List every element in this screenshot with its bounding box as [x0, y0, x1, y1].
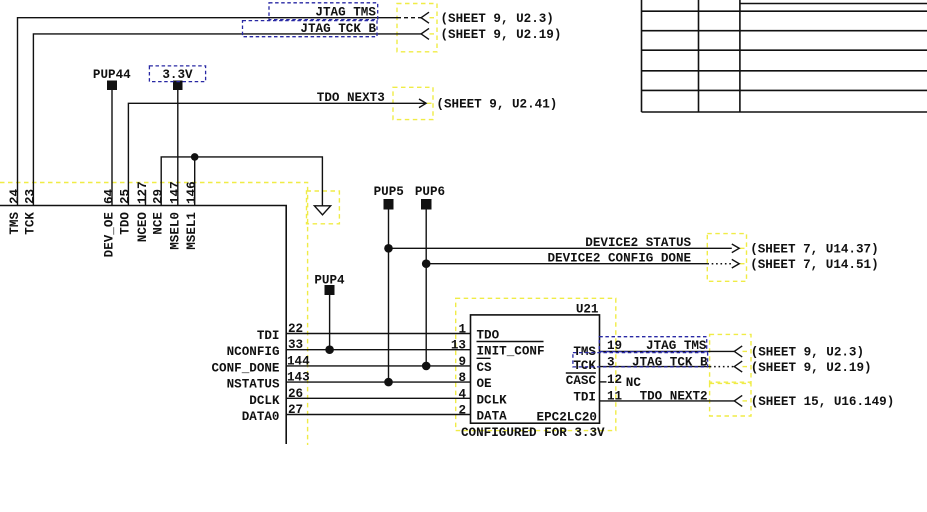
junction MSEL1	[191, 153, 199, 161]
svg-text:(SHEET 9, U2.41): (SHEET 9, U2.41)	[436, 97, 557, 111]
svg-text:JTAG TMS: JTAG TMS	[315, 6, 376, 20]
svg-text:33: 33	[288, 338, 303, 352]
svg-text:(SHEET 7, U14.37): (SHEET 7, U14.37)	[750, 243, 878, 257]
wire TMS net (pin 24 to JTAG TMS)	[18, 18, 398, 206]
svg-text:NSTATUS: NSTATUS	[227, 378, 280, 392]
off-sheet highlight box JTAG top	[397, 4, 437, 52]
svg-text:TDI: TDI	[257, 329, 280, 343]
svg-text:JTAG TCK B: JTAG TCK B	[632, 355, 708, 369]
wire TCK net (pin 23 to JTAG TCK B)	[33, 34, 421, 206]
svg-text:9: 9	[458, 355, 466, 369]
svg-text:1: 1	[458, 323, 466, 337]
overline CASC	[566, 372, 596, 374]
blue box 19 JTAG TMS	[599, 337, 706, 352]
off-sheet highlight box JTAG right	[710, 334, 751, 382]
junction PUP5 on NSTATUS	[384, 378, 393, 387]
svg-text:JTAG TMS: JTAG TMS	[646, 339, 707, 353]
power symbol 3.3V square	[173, 81, 183, 91]
svg-text:DCLK: DCLK	[249, 394, 280, 408]
arrow head DEVICE2 STATUS (to sheet 7)	[732, 244, 739, 253]
ground arrow highlight box	[307, 191, 340, 224]
overline CS	[477, 357, 491, 359]
wire CONF_DONE row	[286, 365, 470, 367]
wire DEVICE2 STATUS	[389, 247, 732, 249]
svg-text:4: 4	[458, 387, 466, 401]
junction PUP4 on NCONFIG	[325, 345, 334, 354]
svg-text:INIT_CONF: INIT_CONF	[477, 345, 545, 359]
arrow head TDO NEXT3 (to sheet 9)	[419, 99, 426, 108]
pullup PUP5 square	[384, 199, 394, 210]
svg-text:TDI: TDI	[573, 391, 596, 405]
net label JTAG TCK B blue box	[243, 21, 378, 37]
svg-text:NCEO: NCEO	[136, 212, 150, 243]
arrow head TDO NEXT2 (to sheet 15)	[734, 395, 742, 406]
svg-text:CONFIGURED FOR 3.3V: CONFIGURED FOR 3.3V	[461, 426, 605, 440]
svg-text:JTAG TCK B: JTAG TCK B	[300, 22, 376, 36]
svg-text:DCLK: DCLK	[477, 393, 508, 407]
junction DEVICE2 STATUS on PUP5	[384, 244, 393, 253]
arrow head DEVICE2 CONFIG DONE (to sheet 7)	[732, 259, 739, 268]
svg-text:147: 147	[168, 181, 182, 204]
arrow head JTAG TCK B right (to sheet 9 U2.19)	[734, 361, 742, 372]
overline INIT_CONF	[477, 341, 544, 343]
svg-text:DEVICE2 CONFIG DONE: DEVICE2 CONFIG DONE	[548, 251, 692, 265]
wire NSTATUS row	[286, 381, 470, 383]
svg-text:19: 19	[607, 339, 622, 353]
svg-text:OE: OE	[477, 377, 493, 391]
chip U21 body	[471, 315, 600, 423]
power label 3.3V blue box	[149, 66, 205, 82]
svg-text:144: 144	[287, 354, 310, 368]
wire U21 pin 11 TDI / TDO NEXT2	[600, 400, 735, 402]
arrow head JTAG TMS right (to sheet 9 U2.3)	[734, 346, 742, 357]
svg-text:CS: CS	[477, 361, 493, 375]
svg-text:13: 13	[451, 339, 466, 353]
svg-text:PUP5: PUP5	[374, 185, 404, 199]
svg-text:NCONFIG: NCONFIG	[227, 345, 280, 359]
svg-text:25: 25	[119, 189, 133, 204]
off-sheet highlight box DEVICE2	[707, 234, 746, 282]
arrow head JTAG TMS (to sheet 9)	[421, 12, 429, 23]
svg-text:(SHEET 15, U16.149): (SHEET 15, U16.149)	[751, 395, 895, 409]
off-sheet highlight box TDO NEXT2	[710, 383, 751, 416]
ground arrow symbol	[314, 206, 330, 215]
highlight boundary yellow dashed	[0, 183, 308, 446]
pullup PUP6 square	[421, 199, 432, 210]
svg-text:CASC: CASC	[566, 374, 597, 388]
svg-text:(SHEET 9, U2.3): (SHEET 9, U2.3)	[441, 12, 554, 26]
svg-text:PUP6: PUP6	[415, 185, 445, 199]
wire PUP4 vertical	[329, 295, 331, 350]
svg-text:EPC2LC20: EPC2LC20	[537, 411, 597, 425]
FPGA block edge	[0, 206, 286, 445]
svg-text:(SHEET 9, U2.3): (SHEET 9, U2.3)	[751, 346, 864, 360]
wire NCE pin 29 to ground arrow	[161, 157, 322, 206]
wire U21 pin 3 TCK dotted part	[710, 366, 735, 368]
svg-text:MSEL1: MSEL1	[185, 212, 199, 250]
svg-text:11: 11	[607, 390, 623, 404]
wire TDI row	[286, 333, 470, 335]
U21 highlight box	[456, 298, 616, 430]
wire U21 pin 3 TCK solid part	[600, 366, 710, 368]
svg-text:12: 12	[607, 373, 622, 387]
svg-text:TDO NEXT2: TDO NEXT2	[640, 390, 708, 404]
svg-text:143: 143	[287, 371, 310, 385]
svg-text:MSEL0: MSEL0	[168, 212, 182, 250]
pullup PUP44 square	[107, 81, 117, 91]
wire DATA0 row	[286, 414, 470, 416]
wire DEVICE2 CONFIG DONE dotted part	[707, 263, 732, 265]
blue box TCK / 3 JTAG TCK B	[573, 353, 708, 367]
wire DEVICE2 CONFIG DONE solid part	[426, 263, 707, 265]
svg-text:64: 64	[102, 188, 116, 204]
svg-text:PUP4: PUP4	[314, 273, 345, 287]
wire MSEL0 pin 147 to 3.3V	[177, 90, 179, 206]
svg-text:DATA: DATA	[477, 410, 508, 424]
wire DEV_OE pin 64 to PUP44	[111, 90, 113, 206]
svg-text:TCK: TCK	[24, 212, 38, 235]
title block table grid	[642, 0, 927, 112]
wire NCEO pin 127 stub	[145, 190, 147, 206]
svg-text:127: 127	[136, 181, 150, 204]
wire TMS dashed segment to arrow	[397, 17, 421, 19]
svg-text:TMS: TMS	[8, 212, 22, 235]
svg-text:PUP44: PUP44	[93, 68, 131, 82]
svg-text:TCK: TCK	[573, 359, 596, 373]
pullup PUP4 square	[325, 285, 335, 295]
svg-text:U21: U21	[576, 303, 599, 317]
arrow head JTAG TCK B (to sheet 9)	[421, 28, 429, 39]
wire U21 pin 12 CASC stub	[600, 381, 607, 383]
svg-text:NCE: NCE	[152, 212, 166, 235]
svg-text:27: 27	[288, 403, 303, 417]
wire PUP6 vertical	[425, 210, 427, 366]
wire PUP5 vertical	[388, 210, 390, 383]
svg-text:8: 8	[458, 371, 466, 385]
svg-text:(SHEET 9, U2.19): (SHEET 9, U2.19)	[751, 361, 872, 375]
svg-text:TDO: TDO	[477, 329, 500, 343]
svg-text:(SHEET 9, U2.19): (SHEET 9, U2.19)	[441, 28, 562, 42]
yellow net stubs in off-sheet boxes	[427, 18, 751, 401]
svg-text:23: 23	[24, 189, 38, 204]
svg-text:146: 146	[185, 181, 199, 204]
wire MSEL1 pin 146	[194, 157, 196, 206]
svg-text:TDO NEXT3: TDO NEXT3	[317, 91, 385, 105]
svg-text:24: 24	[8, 188, 22, 204]
svg-text:26: 26	[288, 387, 303, 401]
svg-text:TDO: TDO	[119, 212, 133, 235]
off-sheet highlight box TDO NEXT3	[393, 87, 433, 119]
svg-text:3: 3	[607, 355, 615, 369]
svg-text:DEV_OE: DEV_OE	[102, 212, 116, 258]
junction DEVICE2 CONFIG DONE on PUP6	[422, 259, 431, 268]
svg-text:2: 2	[458, 404, 466, 418]
net label JTAG TMS blue box	[269, 3, 378, 20]
wire NCONFIG row	[286, 349, 470, 351]
svg-text:(SHEET 7, U14.51): (SHEET 7, U14.51)	[750, 258, 878, 272]
svg-text:DEVICE2 STATUS: DEVICE2 STATUS	[585, 236, 691, 250]
svg-text:CONF_DONE: CONF_DONE	[211, 361, 279, 375]
junction PUP6 on CONF_DONE	[422, 362, 431, 371]
wire DCLK row	[286, 397, 470, 399]
wire TDO pin 25 / TDO NEXT3 net	[128, 103, 425, 205]
svg-text:22: 22	[288, 322, 303, 336]
svg-text:NC: NC	[626, 376, 642, 390]
svg-text:29: 29	[152, 189, 166, 204]
svg-text:DATA0: DATA0	[242, 410, 280, 424]
svg-text:3.3V: 3.3V	[162, 68, 193, 82]
wire U21 pin 19 TMS to off-sheet	[600, 350, 735, 352]
